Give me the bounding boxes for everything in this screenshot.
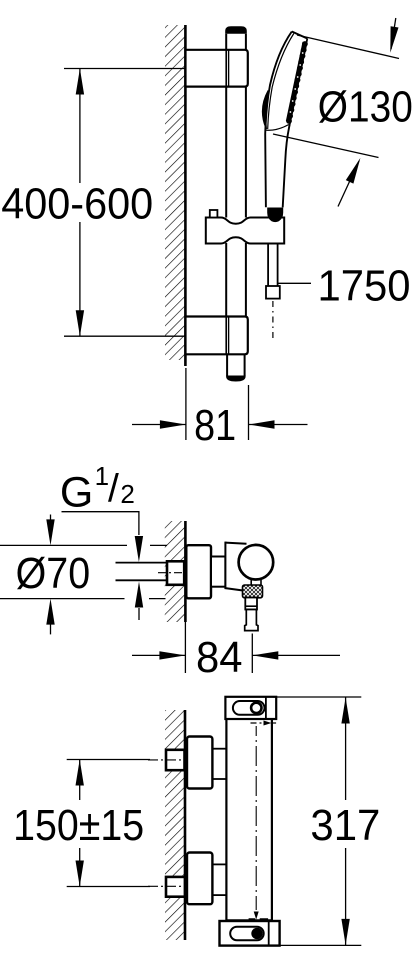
- Ø70 down arrow: [50, 515, 52, 521]
- shower face outer line: [290, 39, 308, 125]
- arrow right 81: [160, 420, 186, 428]
- svg-text:2: 2: [120, 479, 134, 509]
- arrow down 400-600: [76, 310, 84, 336]
- G1/2 down arrow: [135, 536, 143, 562]
- G1/2 up arrow: [138, 608, 140, 620]
- dim 400-600 dimension line: [79, 69, 81, 184]
- rail bottom cap: [226, 376, 246, 382]
- hose below mixer: [245, 610, 258, 631]
- arrow up 317: [341, 698, 349, 724]
- bracket clamp lines top: [225, 50, 227, 87]
- wall hatching middle: [165, 521, 185, 622]
- bottom wall bracket: [186, 317, 248, 355]
- dim 81 right extension line: [248, 385, 250, 440]
- svg-text:Ø130: Ø130: [318, 82, 413, 131]
- lower union nut in wall: [166, 877, 185, 897]
- dim 150±15 top extension line: [67, 759, 150, 761]
- upper union nut in wall: [166, 750, 185, 770]
- svg-text:1: 1: [95, 461, 109, 491]
- dim 84 left extension line: [184, 622, 186, 673]
- svg-text:/: /: [108, 468, 119, 511]
- upper union centerline: [148, 759, 181, 761]
- dim 400-600 top extension line: [64, 68, 186, 70]
- arrow left 81: [249, 420, 275, 428]
- union nut in wall: [167, 561, 184, 585]
- dim 81 dimension line left: [132, 424, 186, 426]
- Ø130 lower arrow: [338, 161, 359, 207]
- G1/2 leader line: [62, 512, 139, 535]
- mixer body cylinder: [211, 557, 225, 587]
- mini dim under top cap: [251, 722, 262, 724]
- arrow left 84: [252, 651, 278, 659]
- centerline end arrow: [254, 912, 259, 920]
- shower head left inner rim line: [268, 34, 294, 130]
- hose adapter: [245, 598, 257, 610]
- hand shower body: [265, 32, 307, 208]
- dim 150±15 dimension line: [79, 760, 81, 801]
- hose end collar: [266, 286, 280, 299]
- upper union pipe stub: [212, 748, 226, 750]
- ball-nut neck: [250, 580, 252, 587]
- shower rail upper segment: [225, 34, 227, 218]
- shower head/handle joint line: [265, 125, 289, 131]
- dim 317 dimension line: [345, 697, 347, 800]
- hose centerline dashes: [272, 301, 274, 338]
- svg-text:81: 81: [194, 401, 236, 450]
- slider holder body: [206, 218, 284, 244]
- supply pipe: [116, 562, 168, 564]
- shower hose upper: [267, 244, 269, 287]
- mixer head housing: [225, 543, 262, 592]
- dim 84 right extension line: [251, 634, 253, 674]
- dim 81 dimension line right: [249, 424, 308, 426]
- shower face nozzle band: [288, 42, 305, 121]
- dim 317 top extension line: [273, 696, 362, 698]
- Ø70 up arrow: [50, 625, 52, 635]
- mixer ball (lever head): [239, 545, 274, 580]
- dim 150±15 bottom extension line: [67, 886, 150, 888]
- bottom cap knob circle (filled): [251, 928, 262, 939]
- dim 84 dimension line: [132, 654, 185, 656]
- top wall bracket: [186, 50, 248, 87]
- dim 400-600 bottom extension line: [64, 335, 186, 337]
- arrow up 400-600: [76, 69, 84, 95]
- top cap pill: [233, 701, 265, 715]
- bracket clamp lines bottom: [225, 317, 227, 355]
- dim Ø70 bottom extension line: [0, 598, 125, 600]
- wall hatching top: [165, 25, 185, 360]
- svg-text:1750: 1750: [318, 262, 411, 311]
- thermostat body: [225, 719, 227, 921]
- nut centerline: [158, 572, 182, 574]
- shower head side crescent: [263, 91, 269, 130]
- wall hatching bottom: [165, 710, 185, 940]
- bottom cap pill: [230, 927, 264, 940]
- mixer escutcheon: [186, 545, 211, 598]
- top cap (volume handle): [225, 697, 276, 719]
- hand shower handle cone (dark): [267, 207, 283, 222]
- shower head left edge: [265, 32, 292, 208]
- svg-text:84: 84: [196, 633, 243, 682]
- rail bottom end: [226, 354, 228, 376]
- shower head top edge: [292, 32, 308, 39]
- lower union centerline: [148, 885, 181, 887]
- svg-text:317: 317: [310, 801, 380, 850]
- arrow up 150±15: [76, 760, 84, 786]
- wall surface line middle: [184, 521, 187, 622]
- bottom cap (temperature handle): [220, 921, 280, 946]
- body centerline: [255, 726, 257, 910]
- rail top cap: [225, 26, 247, 34]
- top cap circle: [251, 703, 261, 713]
- lower union escutcheon: [187, 853, 212, 905]
- dim Ø130 upper tangent line: [297, 35, 399, 59]
- dim Ø70 top extension line: [0, 544, 127, 546]
- upper union escutcheon: [187, 737, 212, 789]
- slider knob: [210, 210, 218, 218]
- wall surface line top: [184, 25, 187, 366]
- lower union pipe stub: [212, 863, 226, 865]
- svg-text:150±15: 150±15: [13, 801, 144, 850]
- dim 1750 leader line: [278, 282, 311, 284]
- knurled hose nut: [243, 585, 263, 598]
- arrow down 317: [341, 919, 349, 945]
- svg-text:G: G: [60, 469, 93, 517]
- Ø130 upper arrow: [391, 18, 396, 49]
- dim 81 left extension line: [185, 368, 187, 440]
- shower rail lower segment: [225, 243, 227, 317]
- svg-text:Ø70: Ø70: [16, 549, 91, 598]
- arrow right 84: [159, 651, 185, 659]
- dim 317 bottom extension line: [280, 944, 361, 946]
- shower handle right edge: [283, 124, 290, 207]
- wall surface line bottom: [184, 710, 187, 940]
- arrow down 150±15: [76, 861, 84, 887]
- svg-text:400-600: 400-600: [1, 179, 153, 228]
- dim Ø130 lower tangent line: [273, 134, 379, 158]
